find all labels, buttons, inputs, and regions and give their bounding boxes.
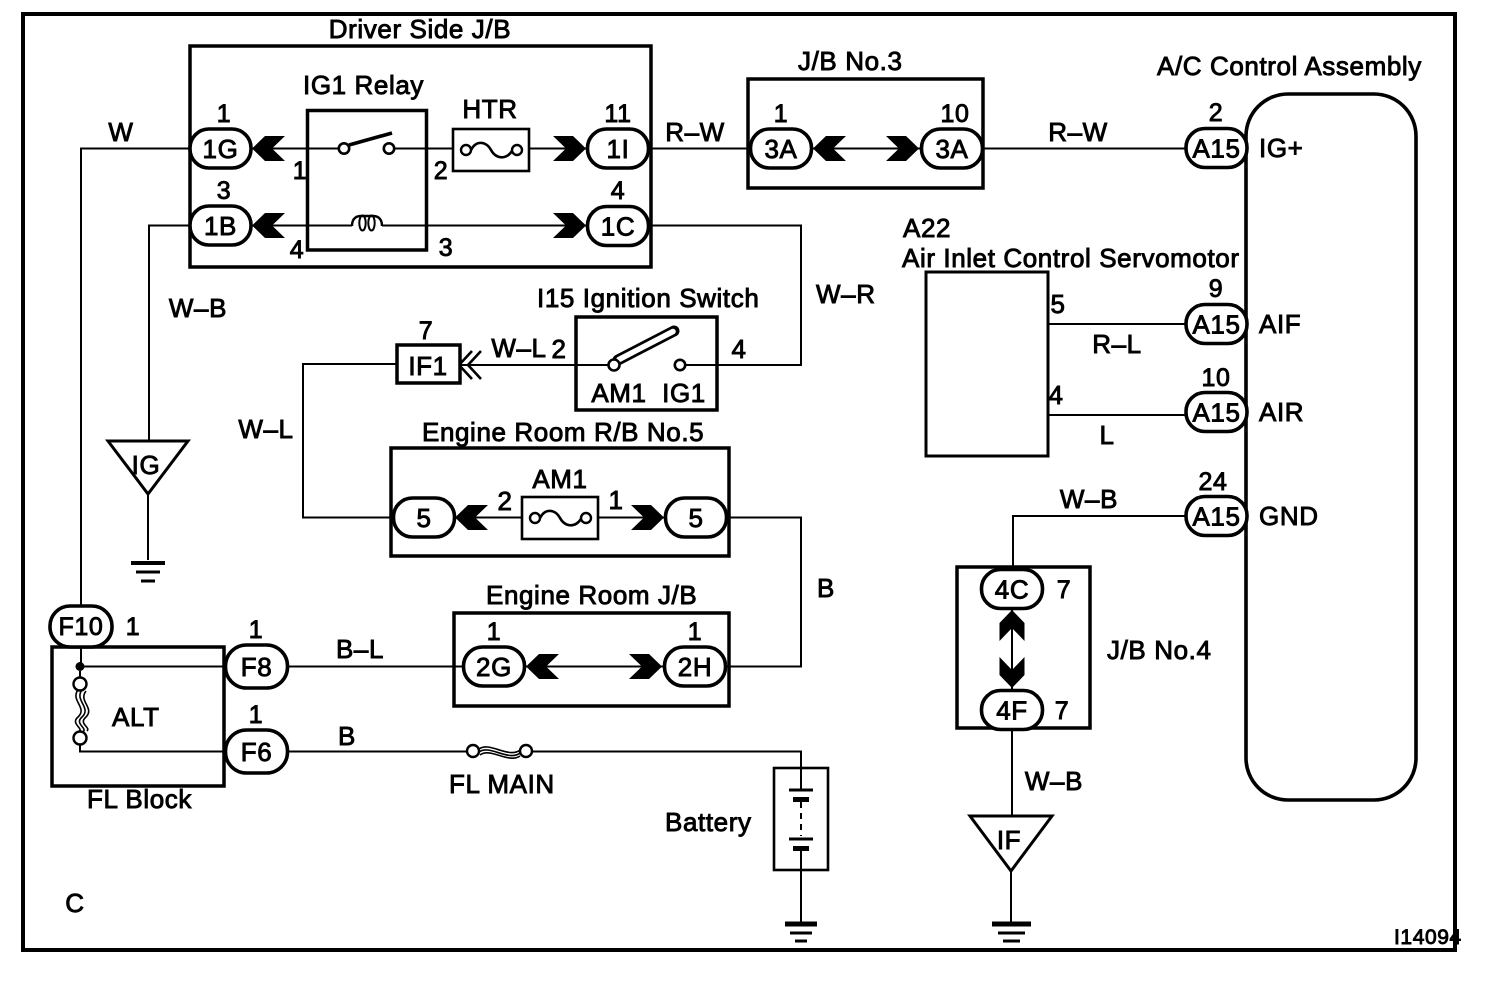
wire relay pin 3 to 1C (382, 225, 587, 227)
wire W-B GND to J/B No.4 (1013, 516, 1186, 570)
svg-text:5: 5 (688, 503, 703, 533)
svg-text:W: W (108, 117, 133, 147)
wire R-W 1I to J/B No.3 (649, 148, 750, 150)
svg-text:W–L: W–L (491, 333, 546, 363)
svg-text:IF1: IF1 (408, 351, 447, 381)
wire IG triangle to ground (147, 494, 149, 560)
svg-text:C: C (65, 888, 84, 918)
svg-text:W–B: W–B (1025, 766, 1083, 796)
arrow down into 4F (1000, 657, 1025, 688)
arrow into 1C (553, 213, 586, 238)
svg-text:1: 1 (688, 618, 703, 646)
svg-text:10: 10 (1201, 364, 1230, 392)
ground symbol IG (131, 563, 165, 581)
svg-text:W–B: W–B (169, 293, 227, 323)
wire between 3A connectors (812, 148, 920, 150)
svg-text:Engine Room J/B: Engine Room J/B (486, 580, 697, 610)
svg-text:2: 2 (1209, 99, 1224, 127)
svg-text:A22: A22 (903, 213, 951, 243)
svg-text:A15: A15 (1192, 310, 1240, 340)
wire B from right 5 down to 2H (726, 518, 802, 667)
arrow into 2H (629, 654, 662, 679)
connector 1C (588, 207, 649, 246)
svg-text:4: 4 (1048, 380, 1063, 410)
svg-text:ALT: ALT (112, 702, 160, 732)
svg-text:11: 11 (604, 100, 631, 128)
battery box (774, 768, 828, 870)
svg-text:IF: IF (997, 825, 1021, 855)
connector A15 pin10 (1186, 393, 1247, 432)
svg-text:IG1 Relay: IG1 Relay (303, 70, 424, 100)
fuse HTR element (471, 143, 512, 157)
svg-text:W–B: W–B (1060, 484, 1118, 514)
arrow into 3A pin1 (813, 136, 846, 161)
svg-text:1I: 1I (607, 134, 630, 164)
svg-text:4: 4 (731, 334, 746, 364)
svg-text:A15: A15 (1192, 134, 1240, 164)
svg-text:IG1: IG1 (662, 378, 706, 408)
svg-text:2H: 2H (678, 652, 712, 682)
svg-text:1G: 1G (203, 134, 239, 164)
connector 1I (588, 129, 649, 168)
svg-text:10: 10 (940, 100, 969, 128)
switch I15 Ignition Switch box (576, 317, 717, 410)
wire 5 to AM1 fuse (454, 517, 522, 519)
svg-text:1B: 1B (204, 211, 237, 241)
svg-text:5: 5 (1050, 289, 1065, 319)
svg-text:AM1: AM1 (591, 378, 646, 408)
connector 1B (190, 206, 251, 245)
connector 2H (665, 647, 726, 686)
arrow into 1B (252, 213, 285, 238)
svg-text:9: 9 (1209, 275, 1224, 303)
svg-text:3A: 3A (764, 134, 797, 164)
junction block J/B No.3 box (748, 79, 983, 188)
wire ignition switch to IF1 (460, 364, 576, 366)
arrow into 1I (553, 136, 586, 161)
svg-text:4: 4 (611, 177, 626, 205)
svg-text:A/C Control Assembly: A/C Control Assembly (1157, 51, 1422, 81)
switch contact AM1 circle (609, 360, 620, 371)
wire W-R 1C to ignition switch pin4 (649, 226, 801, 366)
svg-text:24: 24 (1198, 468, 1227, 496)
svg-text:W–R: W–R (816, 279, 876, 309)
wire IF triangle to ground (1010, 871, 1012, 922)
wire junction to F8 (80, 666, 226, 668)
wire B-L F8 to 2G (288, 666, 464, 668)
svg-text:1: 1 (608, 485, 623, 515)
arrow into 1G (252, 136, 285, 161)
fusible link FL MAIN (467, 745, 532, 758)
svg-text:AM1: AM1 (532, 464, 587, 494)
arrow into 3A pin10 (886, 136, 919, 161)
wire W-B from 1B down to IG ground (149, 226, 190, 442)
arrow up into 4C (1000, 610, 1025, 641)
fuse HTR box (453, 129, 529, 171)
connector IF1 box (397, 345, 460, 383)
wire lower link to F6 (80, 744, 226, 752)
connector F6 (226, 730, 288, 773)
svg-text:2G: 2G (476, 652, 512, 682)
arrow into right 5 (631, 505, 664, 530)
wire relay pin2 to HTR fuse (394, 148, 453, 150)
svg-text:FL Block: FL Block (87, 784, 192, 814)
switch internal wires (576, 364, 608, 366)
svg-text:R–W: R–W (665, 117, 725, 147)
wire HTR to 1I (529, 148, 587, 150)
junction block J/B No.4 box (957, 567, 1090, 728)
svg-text:B–L: B–L (336, 634, 384, 664)
svg-text:W–L: W–L (238, 414, 293, 444)
ground symbol IF (992, 924, 1031, 941)
svg-text:R–L: R–L (1092, 329, 1142, 359)
wire F10 into block (80, 647, 82, 667)
relay coil (352, 216, 382, 226)
connector 2G (464, 647, 525, 686)
wire R-W 3A to A15 (983, 148, 1186, 150)
connector 5 right (666, 498, 727, 537)
wire W-L from IF1 down to R/B No.5 (303, 364, 397, 518)
fuse AM1 element (540, 511, 581, 525)
connector 5 left (394, 498, 455, 537)
svg-text:Battery: Battery (665, 807, 752, 837)
fuse AM1 box (522, 497, 598, 539)
svg-text:AIR: AIR (1259, 397, 1304, 427)
svg-text:2: 2 (434, 157, 449, 185)
ECU A/C Control Assembly outline (1246, 94, 1416, 800)
svg-text:4: 4 (290, 236, 305, 264)
svg-text:4F: 4F (996, 696, 1028, 726)
svg-text:FL MAIN: FL MAIN (449, 769, 555, 799)
wire between 4C and 4F (1011, 608, 1013, 691)
relay switch lever (349, 133, 392, 145)
wire W from frame-left to 1G (81, 149, 190, 607)
relay switch contact pin2 circle (384, 143, 394, 153)
wire 1G to relay pin 1 (251, 148, 339, 150)
svg-text:L: L (1099, 420, 1114, 450)
svg-text:2: 2 (497, 486, 512, 516)
connector F8 (226, 645, 288, 688)
svg-text:I14094: I14094 (1394, 926, 1462, 949)
svg-text:I15 Ignition Switch: I15 Ignition Switch (537, 283, 759, 313)
arrow into 2G (526, 654, 559, 679)
wire 1B to relay pin 4 (251, 225, 352, 227)
wire W-B 4F to IF ground (1011, 730, 1013, 817)
junction block: Driver Side J/B box (190, 46, 651, 267)
ground symbol battery (785, 924, 817, 941)
relay switch contact pin1 circle (339, 143, 349, 153)
connector A15 pin2 (1186, 129, 1247, 168)
connector A15 pin24 (1186, 497, 1247, 536)
connector 4F (982, 691, 1043, 730)
servomotor A22 box (926, 272, 1048, 456)
svg-text:3: 3 (439, 234, 454, 262)
wire R-L servo pin5 to A15 pin9 (1048, 323, 1186, 325)
switch contact IG1 circle (675, 360, 685, 370)
battery plates (789, 790, 813, 849)
wire battery to ground (800, 851, 802, 922)
connector F10 (50, 606, 112, 647)
svg-text:IG: IG (132, 450, 161, 480)
svg-text:A15: A15 (1192, 398, 1240, 428)
svg-text:F8: F8 (241, 652, 273, 682)
svg-text:HTR: HTR (462, 94, 517, 124)
svg-text:J/B No.3: J/B No.3 (798, 46, 903, 76)
relay K: IG1 Relay box (308, 111, 427, 251)
svg-text:B: B (338, 721, 356, 751)
wire FL MAIN to battery (532, 752, 801, 791)
svg-text:R–W: R–W (1048, 117, 1108, 147)
svg-text:J/B No.4: J/B No.4 (1107, 635, 1212, 665)
wire L servo pin4 to A15 pin10 (1048, 414, 1186, 416)
alternator FL Block box (52, 647, 224, 786)
junction dot node (76, 662, 85, 671)
junction block Engine Room J/B box (454, 613, 729, 706)
svg-text:GND: GND (1259, 501, 1319, 531)
svg-text:1C: 1C (601, 212, 635, 242)
svg-text:IG+: IG+ (1259, 133, 1303, 163)
svg-text:A15: A15 (1192, 502, 1240, 532)
relay block Engine Room R/B No.5 box (391, 448, 729, 556)
svg-text:7: 7 (1055, 697, 1070, 725)
svg-text:5: 5 (416, 503, 431, 533)
svg-text:Engine Room R/B No.5: Engine Room R/B No.5 (422, 417, 704, 447)
wire B F6 to FL MAIN (288, 751, 468, 753)
svg-text:B: B (817, 573, 835, 603)
svg-text:1: 1 (217, 100, 232, 128)
svg-text:1: 1 (249, 701, 264, 729)
svg-text:2: 2 (551, 334, 566, 364)
svg-text:1: 1 (249, 616, 264, 644)
svg-text:Driver Side J/B: Driver Side J/B (329, 14, 511, 44)
connector 3A pin1 (751, 129, 812, 168)
fusible link ALT wire (79, 671, 81, 678)
svg-text:Air Inlet Control Servomotor: Air Inlet Control Servomotor (902, 243, 1240, 273)
wire AM1 fuse to right 5 (598, 517, 665, 519)
svg-text:F6: F6 (241, 737, 273, 767)
connector 4C (982, 570, 1043, 609)
svg-text:3: 3 (217, 177, 232, 205)
svg-text:1: 1 (293, 157, 308, 185)
connector 1G (190, 129, 251, 168)
svg-text:7: 7 (419, 317, 434, 345)
svg-text:AIF: AIF (1259, 309, 1301, 339)
wire between 2G and 2H (525, 666, 663, 668)
splice chevrons at IF1 (459, 351, 481, 379)
svg-text:4C: 4C (995, 575, 1029, 605)
ground triangle IG (108, 441, 188, 494)
arrow into left 5 (455, 505, 488, 530)
svg-text:F10: F10 (59, 613, 104, 641)
svg-text:1: 1 (487, 618, 502, 646)
svg-text:1: 1 (774, 100, 789, 128)
svg-text:1: 1 (126, 613, 141, 641)
svg-text:7: 7 (1057, 576, 1072, 604)
connector A15 pin9 (1186, 305, 1247, 344)
ground triangle IF (970, 816, 1052, 871)
svg-text:3A: 3A (935, 134, 968, 164)
switch lever outline (618, 331, 674, 360)
connector 3A pin10 (922, 129, 983, 168)
